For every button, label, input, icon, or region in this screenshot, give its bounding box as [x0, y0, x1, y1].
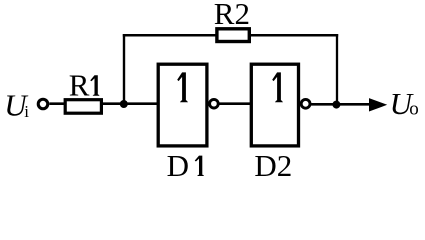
inverter D1 [158, 64, 207, 146]
svg-text:D2: D2 [254, 148, 292, 178]
D1 output bubble [210, 99, 219, 108]
resistor R1 [65, 100, 101, 114]
node output junction [332, 101, 340, 109]
D2 output bubble [301, 99, 310, 108]
output arrowhead [369, 98, 387, 111]
label Uo [390, 86, 419, 121]
wire feedback top right segment [249, 34, 338, 37]
wire R1 to D1 [103, 102, 158, 105]
wire input terminal to R1 [49, 102, 66, 105]
wire feedback left vertical [123, 34, 125, 104]
svg-text:R: R [69, 68, 90, 103]
resistor R2 [217, 29, 249, 42]
label R1 [69, 68, 100, 103]
svg-text:R2: R2 [214, 0, 250, 31]
svg-text:o: o [409, 99, 419, 120]
label Ui [4, 88, 29, 123]
label D1 [167, 148, 205, 183]
inverter D2 [251, 64, 298, 146]
svg-text:i: i [24, 102, 29, 121]
label D2 [254, 148, 292, 183]
wire D2 to output arrow [311, 103, 371, 106]
wire feedback top left segment [123, 34, 217, 37]
input terminal [38, 99, 48, 109]
label R2 [214, 0, 250, 31]
wire D1 to D2 [219, 102, 251, 105]
wire feedback right vertical [336, 34, 338, 105]
node input junction [120, 100, 128, 108]
svg-text:D: D [167, 148, 189, 178]
